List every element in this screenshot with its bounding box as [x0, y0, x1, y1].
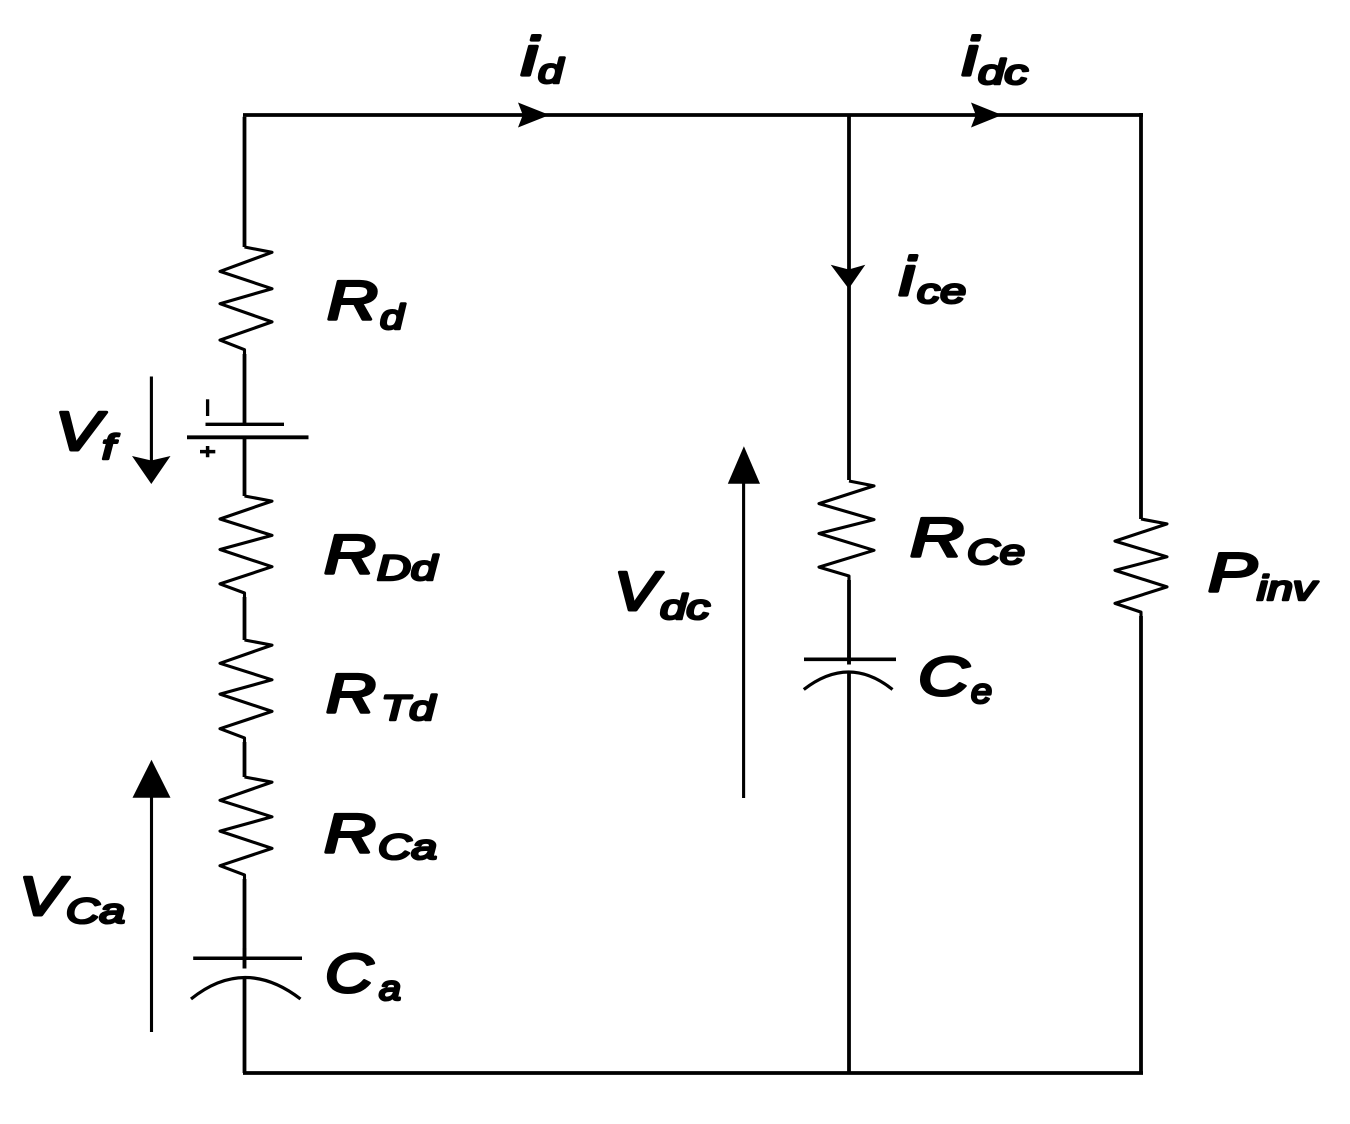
svg-text:Ca: Ca: [66, 892, 125, 931]
svg-text:C: C: [325, 942, 375, 1004]
wire middle branch upper: [847, 115, 851, 480]
battery Vf source: [187, 399, 309, 457]
wire RTd to RCa: [243, 742, 247, 777]
svg-text:R: R: [324, 802, 376, 864]
wire middle branch between RCe and Ce: [847, 580, 851, 665]
Ca top plate: [193, 956, 302, 960]
resistor RTd: [220, 640, 272, 742]
svg-text:e: e: [971, 672, 992, 711]
Ce top plate: [804, 657, 896, 661]
svg-text:dc: dc: [660, 588, 711, 627]
Ca top lead stub: [243, 948, 246, 969]
svg-text:Td: Td: [381, 689, 437, 728]
svg-text:R: R: [326, 662, 376, 724]
arrow id on top wire: [518, 103, 550, 128]
svg-text:inv: inv: [1257, 569, 1319, 608]
resistor RCa: [220, 777, 272, 879]
svg-text:V: V: [614, 560, 663, 622]
svg-text:i: i: [899, 245, 917, 307]
arrow idc on top wire: [971, 103, 1002, 128]
Ca curved bottom plate: [191, 978, 301, 1000]
svg-text:V: V: [55, 400, 106, 462]
svg-text:R: R: [327, 269, 378, 331]
Ce curved bottom plate: [804, 672, 893, 690]
capacitor Ca: [191, 948, 302, 999]
Ce top lead stub: [847, 650, 850, 665]
wire Ca to bottom: [243, 978, 247, 1074]
svg-text:P: P: [1208, 541, 1257, 603]
svg-text:a: a: [379, 969, 401, 1008]
wire right branch upper: [1139, 113, 1143, 519]
svg-text:Ca: Ca: [378, 828, 437, 867]
svg-text:d: d: [538, 52, 565, 91]
resistor Pinv: [1115, 519, 1167, 616]
svg-text:Ce: Ce: [967, 533, 1025, 572]
resistor RDd: [220, 496, 272, 597]
svg-text:R: R: [324, 523, 376, 585]
wire RCa to Ca: [243, 879, 247, 969]
wire bottom bus: [243, 1071, 1143, 1075]
svg-text:Dd: Dd: [377, 549, 439, 588]
svg-text:R: R: [910, 506, 964, 568]
svg-text:ce: ce: [917, 272, 966, 311]
wire battery to RDd: [243, 437, 247, 496]
wire middle branch lower: [847, 672, 851, 1073]
wire left branch upper: [243, 117, 247, 247]
capacitor Ce: [804, 650, 896, 690]
battery bottom plate: [187, 435, 309, 439]
svg-text:C: C: [918, 645, 971, 707]
resistor Rd: [220, 247, 272, 354]
svg-text:V: V: [19, 865, 69, 927]
battery minus tick: [206, 399, 209, 416]
svg-text:dc: dc: [978, 53, 1029, 92]
resistor RCe: [819, 481, 874, 580]
svg-text:d: d: [380, 298, 406, 337]
wire Rd to battery: [243, 354, 247, 424]
wire RDd to RTd: [243, 597, 247, 640]
arrow Vf down: [132, 377, 171, 485]
wire right branch lower: [1139, 616, 1143, 1073]
arrow VCa up: [133, 760, 171, 1032]
arrow Vdc up: [728, 446, 760, 798]
arrow ice on middle branch: [831, 265, 866, 289]
battery plus sign: [200, 446, 215, 457]
battery top plate: [206, 423, 285, 426]
wire top bus: [243, 113, 1143, 117]
